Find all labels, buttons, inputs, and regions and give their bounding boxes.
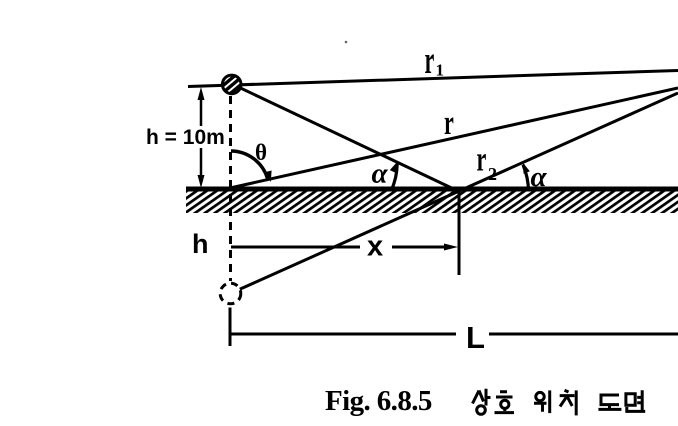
svg-text:r: r bbox=[425, 39, 435, 82]
svg-text:h = 10m: h = 10m bbox=[146, 126, 225, 149]
svg-text:α: α bbox=[372, 158, 389, 190]
svg-text:r: r bbox=[477, 141, 487, 179]
svg-text:1: 1 bbox=[436, 61, 445, 80]
svg-text:Fig. 6.8.5: Fig. 6.8.5 bbox=[325, 385, 432, 417]
svg-text:h: h bbox=[192, 229, 209, 259]
svg-text:α: α bbox=[531, 161, 548, 193]
svg-text:2: 2 bbox=[488, 164, 497, 184]
svg-text:L: L bbox=[466, 320, 485, 355]
svg-text:θ: θ bbox=[255, 140, 267, 165]
svg-text:x: x bbox=[367, 231, 383, 263]
svg-text:r: r bbox=[444, 104, 454, 142]
